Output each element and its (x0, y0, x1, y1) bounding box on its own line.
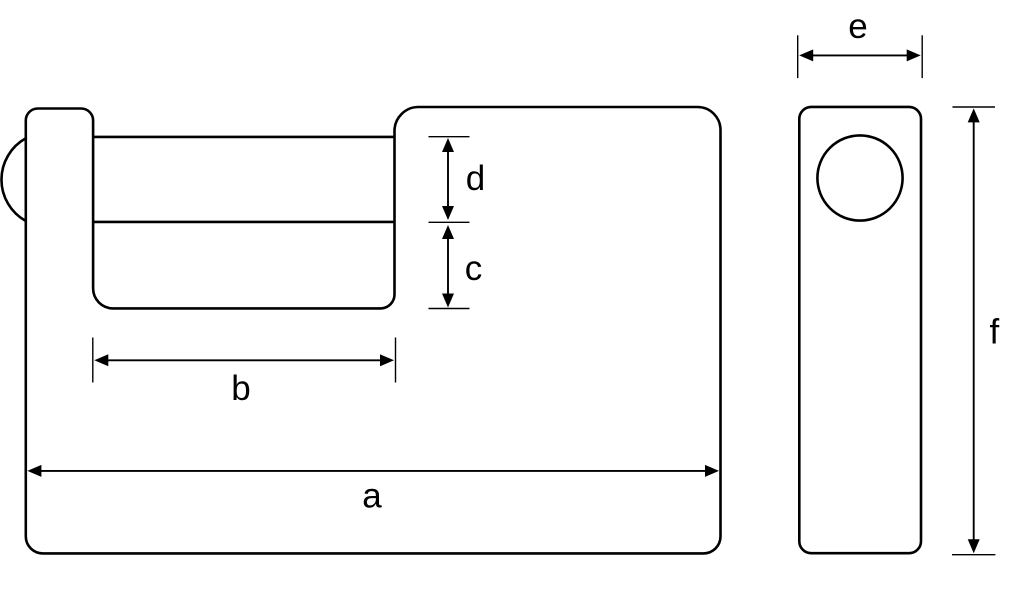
svg-text:e: e (848, 7, 867, 46)
svg-text:f: f (990, 313, 1000, 352)
svg-text:b: b (231, 369, 250, 408)
svg-text:c: c (465, 249, 483, 288)
svg-text:a: a (362, 477, 382, 516)
svg-text:d: d (466, 159, 485, 198)
